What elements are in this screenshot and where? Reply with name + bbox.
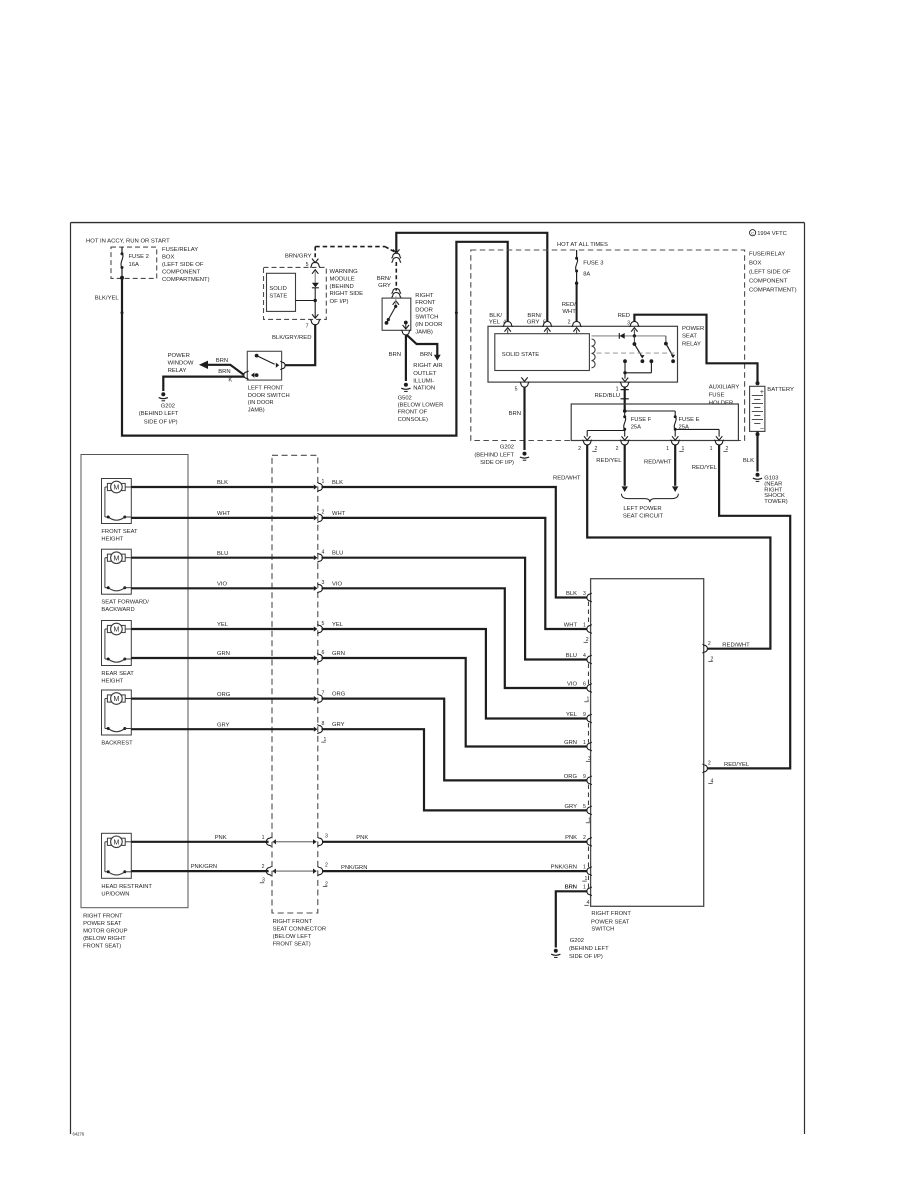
svg-text:2: 2 (583, 835, 586, 841)
svg-text:BATTERY: BATTERY (767, 387, 794, 393)
svg-text:1: 1 (322, 479, 325, 485)
motor M5 head restraint up/down (101, 833, 152, 897)
svg-text:M: M (113, 555, 119, 562)
svg-text:AUXILIARY: AUXILIARY (709, 385, 740, 391)
svg-text:BRN: BRN (218, 369, 230, 375)
svg-text:FUSE 3: FUSE 3 (583, 260, 603, 266)
svg-text:MODULE: MODULE (330, 276, 355, 282)
svg-text:G502: G502 (398, 395, 412, 401)
svg-text:(BEHIND: (BEHIND (330, 284, 354, 290)
diode D1 inside warning module (312, 272, 319, 301)
svg-text:3: 3 (325, 833, 328, 839)
svg-text:(LEFT SIDE OF: (LEFT SIDE OF (162, 262, 204, 268)
svg-text:WHT: WHT (562, 309, 576, 315)
svg-text:−: − (760, 425, 764, 432)
svg-text:(IN DOOR: (IN DOOR (415, 322, 442, 328)
svg-text:(BELOW RIGHT: (BELOW RIGHT (83, 936, 126, 942)
svg-text:COMPARTMENT): COMPARTMENT) (749, 288, 797, 294)
seat connector pin 6 (GRN) (314, 650, 325, 663)
right front power seat switch outline (591, 579, 704, 907)
svg-text:BOX: BOX (749, 261, 762, 267)
svg-text:M: M (113, 696, 119, 703)
svg-text:UP/DOWN: UP/DOWN (101, 891, 129, 897)
wire BLK seat connector to seat switch pin 3 (322, 480, 588, 598)
wire GRY seat connector to seat switch pin 5 (322, 722, 588, 810)
label RIGHT FRONT POWER SEAT SWITCH (591, 911, 631, 933)
svg-text:DOOR SWITCH: DOOR SWITCH (248, 393, 290, 399)
relay coil L1 (592, 339, 596, 368)
label WARNING MODULE (BEHIND RIGHT SIDE OF I/P) (330, 269, 364, 305)
seat switch pin 3 (BLK) (566, 591, 592, 602)
copyright note 1994 VFTC (750, 230, 787, 238)
wire RED/WHT from aux fuse to seat switch pin 2 upper (553, 445, 770, 649)
right front seat connector dashed outline (272, 455, 318, 913)
svg-text:16A: 16A (129, 262, 139, 268)
svg-text:RIGHT FRONT: RIGHT FRONT (591, 911, 631, 917)
svg-text:RED/YEL: RED/YEL (692, 465, 718, 471)
svg-text:HEAD RESTRAINT: HEAD RESTRAINT (101, 884, 152, 890)
svg-text:YEL: YEL (332, 622, 344, 628)
motor M4 backrest (101, 690, 133, 747)
svg-text:TOWER): TOWER) (764, 499, 787, 505)
label POWER WINDOW RELAY (168, 353, 194, 374)
svg-text:SEAT: SEAT (682, 334, 697, 340)
seat switch pin 6 (VIO) (567, 681, 592, 692)
wire BRN from right front door switch to ground G502 (389, 335, 406, 381)
svg-text:BLK: BLK (332, 480, 343, 486)
seat connector pin 5 (YEL) (314, 621, 325, 634)
svg-text:GRN: GRN (332, 651, 345, 657)
svg-text:ORG: ORG (217, 692, 231, 698)
seat connector pin 4 (BLU) (314, 550, 325, 563)
seat switch pin 4 (BLU) (566, 653, 592, 664)
svg-text:JAMB): JAMB) (415, 329, 433, 335)
svg-text:6: 6 (583, 681, 586, 687)
svg-text:RIGHT SIDE: RIGHT SIDE (330, 291, 364, 297)
relay contact node at pin 3 (633, 334, 636, 343)
svg-text:NATION: NATION (413, 386, 435, 392)
fuse F3 (FUSE 3 8A) (575, 250, 604, 285)
wire BRN from relay pin 5 to ground G202 (509, 387, 525, 451)
svg-text:POWER SEAT: POWER SEAT (83, 921, 122, 927)
svg-text:BLK: BLK (217, 480, 228, 486)
seat switch pin 1 (BRN) (565, 885, 592, 896)
label RIGHT FRONT SEAT CONNECTOR (BELOW LEFT FRONT SEAT) (273, 919, 326, 948)
svg-text:WARNING: WARNING (330, 269, 359, 275)
svg-text:SWITCH: SWITCH (591, 927, 614, 933)
svg-text:M: M (113, 485, 119, 492)
svg-text:2: 2 (708, 641, 711, 647)
svg-text:RED/WHT: RED/WHT (553, 475, 581, 481)
svg-text:BLK/: BLK/ (489, 313, 502, 319)
seat connector right pin 3 (PNK) (313, 833, 328, 846)
svg-text:8A: 8A (583, 271, 590, 277)
svg-text:1: 1 (666, 446, 669, 452)
svg-text:FUSE/RELAY: FUSE/RELAY (749, 252, 785, 258)
svg-text:WHT: WHT (564, 622, 578, 628)
svg-text:(BEHIND LEFT: (BEHIND LEFT (474, 452, 514, 458)
svg-text:PNK: PNK (356, 835, 368, 841)
svg-text:BLK: BLK (566, 591, 577, 597)
label RED 3 (618, 313, 631, 326)
svg-text:BRN/: BRN/ (377, 276, 391, 282)
svg-text:LEFT FRONT: LEFT FRONT (248, 385, 284, 391)
label RIGHT AIR OUTLET ILLUMI-NATION (413, 363, 442, 391)
aux fuse holder internal bus wires (584, 429, 722, 440)
svg-text:5: 5 (515, 386, 518, 392)
wire BRN from door switch pin K to ground G202 (163, 369, 244, 391)
wire BLK motor group to seat connector pin 1 (131, 480, 313, 487)
ground G202 (BEHIND LEFT SIDE OF I/P) bottom (551, 938, 609, 960)
seat switch pin 1 (PNK/GRN) (551, 865, 592, 876)
svg-text:BRN/GRY: BRN/GRY (285, 253, 312, 259)
svg-text:RIGHT: RIGHT (415, 293, 434, 299)
wire ORG motor group to seat connector pin 7 (131, 692, 313, 699)
label FUSE/RELAY BOX (LEFT SIDE OF COMPONENT COMPARTMENT) (162, 247, 210, 283)
seat switch right pin 2 (RED/WHT) (703, 641, 751, 662)
svg-text:FUSE: FUSE (709, 393, 725, 399)
label BRN/GRY 6 (527, 313, 546, 326)
label POWER SEAT RELAY (682, 326, 704, 348)
svg-text:7: 7 (306, 323, 309, 329)
svg-text:RED/YEL: RED/YEL (596, 458, 622, 464)
svg-text:4: 4 (322, 550, 325, 556)
warning module pin 7 connector (306, 301, 320, 330)
svg-text:BRN: BRN (389, 352, 401, 358)
svg-text:M: M (113, 627, 119, 634)
svg-text:FUSE 2: FUSE 2 (129, 254, 149, 260)
svg-text:PNK: PNK (215, 835, 227, 841)
svg-text:RELAY: RELAY (682, 342, 701, 348)
label HOT IN ACCY, RUN OR START (86, 238, 170, 244)
svg-text:JAMB): JAMB) (248, 407, 265, 413)
node battery positive junction (756, 381, 760, 385)
fuse FE (FUSE E 25A) (674, 415, 700, 430)
svg-text:HEIGHT: HEIGHT (101, 537, 123, 543)
svg-text:WINDOW: WINDOW (168, 361, 194, 367)
label pin 2 (568, 320, 571, 326)
motor M2 seat forward/backward (101, 549, 149, 613)
seat connector pin 1 (BLK) (314, 479, 325, 492)
relay switch contact SW-B (664, 336, 675, 363)
svg-text:RIGHT FRONT: RIGHT FRONT (83, 914, 123, 920)
seat connector left pin 2 (PNK/GRN) (262, 864, 276, 876)
label pin K (228, 377, 232, 383)
border frame (71, 223, 805, 1137)
seat switch pin 1 (WHT) (564, 622, 592, 633)
wire WHT motor group to seat connector pin 2 (131, 511, 313, 518)
svg-text:RED/WHT: RED/WHT (644, 459, 672, 465)
svg-text:1: 1 (710, 446, 713, 452)
svg-text:POWER: POWER (682, 326, 704, 332)
label FUSE/RELAY BOX (LEFT SIDE OF COMPONENT COMPARTMENT) right (749, 252, 797, 294)
svg-text:RIGHT AIR: RIGHT AIR (413, 363, 442, 369)
svg-text:(BELOW LEFT: (BELOW LEFT (273, 934, 312, 940)
wire BRN/GRY to power seat relay pin 6 (396, 233, 547, 322)
svg-text:YEL: YEL (489, 320, 501, 326)
svg-text:SIDE OF I/P): SIDE OF I/P) (569, 954, 603, 960)
auxiliary fuse holder outline (571, 404, 738, 441)
seat connector pin 3 (VIO) (314, 580, 325, 593)
diode D2 inside relay (619, 333, 624, 339)
ground G103 (NEAR RIGHT SHOCK TOWER) (753, 473, 788, 505)
svg-text:BLU: BLU (566, 653, 577, 659)
svg-text:RED/: RED/ (562, 302, 576, 308)
right front power seat motor group outline (81, 455, 188, 908)
svg-text:POWER: POWER (168, 353, 190, 359)
wire BRN/GRY dashed down to right front door switch (395, 262, 397, 291)
relay pin 4 connector (503, 322, 513, 334)
svg-text:BRN: BRN (420, 352, 432, 358)
svg-text:GRY: GRY (378, 283, 391, 289)
seat switch connector shell ids (582, 637, 591, 906)
svg-text:YEL: YEL (217, 622, 229, 628)
svg-text:1: 1 (583, 622, 586, 628)
wire BRN to power window relay (199, 358, 244, 374)
svg-text:FUSE F: FUSE F (631, 417, 652, 423)
label LEFT FRONT DOOR SWITCH (IN DOOR JAMB) (248, 385, 290, 413)
svg-text:LEFT POWER: LEFT POWER (623, 506, 661, 512)
svg-text:OF I/P): OF I/P) (330, 299, 349, 305)
seat connector pin 2 (WHT) (314, 510, 325, 523)
svg-text:SIDE OF I/P): SIDE OF I/P) (144, 419, 178, 425)
svg-text:FRONT SEAT): FRONT SEAT) (83, 944, 121, 950)
wire RED/WHT from fuse 3 to relay pin 2 (562, 283, 577, 321)
svg-text:BLU: BLU (332, 551, 343, 557)
label HOT AT ALL TIMES (557, 242, 608, 248)
wire WHT seat connector to seat switch pin 1 (322, 511, 588, 629)
svg-text:FRONT: FRONT (415, 300, 436, 306)
svg-text:SIDE OF I/P): SIDE OF I/P) (480, 460, 514, 466)
svg-text:ORG: ORG (564, 774, 578, 780)
svg-text:RED/BLU: RED/BLU (594, 393, 620, 399)
wire BRN to right air outlet illumination (407, 335, 441, 360)
svg-text:3: 3 (583, 591, 586, 597)
node RED/BLU junction (623, 409, 675, 417)
wire YEL motor group to seat connector pin 5 (131, 622, 313, 629)
seat connector shell id 1 (321, 737, 326, 743)
warning module pin 5 connector (306, 259, 320, 274)
seat connector pin 8 (GRY) (314, 721, 325, 734)
seat switch pin 9 (ORG) (564, 774, 592, 785)
svg-text:4: 4 (503, 320, 506, 326)
svg-text:BRN: BRN (216, 358, 228, 364)
label RIGHT FRONT POWER SEAT MOTOR GROUP (BELOW RIGHT FRONT SEAT) (83, 914, 127, 950)
power seat relay K1 outline (488, 326, 678, 382)
svg-text:ORG: ORG (332, 692, 346, 698)
svg-text:3: 3 (322, 580, 325, 586)
in-line connector on BRN/GRY wire (392, 249, 401, 262)
wire BLK from battery to ground G103 (743, 431, 758, 471)
svg-text:2: 2 (322, 510, 325, 516)
wire VIO motor group to seat connector pin 3 (131, 582, 313, 589)
svg-text:1: 1 (583, 740, 586, 746)
svg-text:RELAY: RELAY (168, 368, 187, 374)
svg-text:SEAT FORWARD/: SEAT FORWARD/ (101, 600, 149, 606)
svg-text:BLK/YEL: BLK/YEL (95, 296, 120, 302)
svg-text:PNK/GRN: PNK/GRN (191, 864, 217, 870)
brace for left power seat circuit (622, 494, 679, 502)
seat connector left pin 1 (PNK) (262, 835, 276, 847)
aux fuse holder bottom connectors (578, 440, 728, 452)
svg-text:BRN: BRN (509, 411, 521, 417)
wire PNK seat connector to seat switch (322, 841, 588, 843)
motor M1 front seat height (101, 479, 138, 543)
svg-text:9: 9 (583, 774, 586, 780)
svg-text:1: 1 (616, 386, 619, 392)
label LEFT POWER SEAT CIRCUIT (623, 506, 664, 519)
svg-text:BRN: BRN (565, 885, 577, 891)
ground G202 (BEHIND LEFT SIDE OF I/P) center (474, 445, 529, 466)
svg-text:WHT: WHT (217, 511, 231, 517)
svg-text:RED/YEL: RED/YEL (724, 762, 750, 768)
seat connector bridge wire PNK (272, 841, 316, 843)
svg-text:1: 1 (583, 865, 586, 871)
svg-text:RED/WHT: RED/WHT (722, 642, 750, 648)
wire BLU seat connector to seat switch pin 4 (322, 551, 588, 660)
svg-text:FUSE/RELAY: FUSE/RELAY (162, 247, 198, 253)
svg-text:VIO: VIO (217, 582, 227, 588)
seat connector pin 7 (ORG) (314, 690, 325, 703)
svg-text:YEL: YEL (566, 712, 578, 718)
svg-text:K: K (228, 377, 232, 383)
svg-text:FRONT SEAT: FRONT SEAT (101, 529, 138, 535)
svg-text:GRY: GRY (217, 722, 230, 728)
svg-text:VIO: VIO (567, 681, 577, 687)
svg-text:SWITCH: SWITCH (415, 315, 438, 321)
svg-text:25A: 25A (631, 425, 641, 431)
relay pin 2 connector (572, 322, 582, 334)
seat switch connector group dashes (587, 602, 589, 888)
seat switch pin 1 (GRN) (564, 740, 592, 751)
svg-text:5: 5 (583, 804, 586, 810)
label BRN/GRY at right front door switch (377, 276, 391, 289)
seat connector shell ids (260, 878, 328, 888)
svg-text:2: 2 (616, 446, 619, 452)
wire GRN motor group to seat connector pin 6 (131, 651, 313, 658)
wire RED/WHT to left power seat circuit B (644, 445, 678, 492)
svg-text:SEAT CONNECTOR: SEAT CONNECTOR (273, 926, 326, 932)
seat switch pin 5 (GRY) (565, 804, 592, 815)
svg-text:2: 2 (262, 864, 265, 870)
wire GRY motor group to seat connector pin 8 (131, 722, 313, 729)
svg-text:RED: RED (618, 313, 630, 319)
seat switch pin 9 (YEL) (566, 712, 592, 723)
svg-text:BACKWARD: BACKWARD (101, 607, 134, 613)
svg-text:1994 VFTC: 1994 VFTC (757, 231, 787, 237)
label AUXILIARY FUSE HOLDER (709, 385, 740, 407)
in-line connector above right front door switch (392, 288, 401, 297)
label RIGHT FRONT DOOR SWITCH (IN DOOR JAMB) (415, 293, 442, 336)
wire RED/YEL to left power seat circuit A (596, 445, 628, 492)
svg-text:2: 2 (568, 320, 571, 326)
svg-text:POWER SEAT: POWER SEAT (591, 920, 630, 926)
fuse F2 (FUSE 2 16A) (120, 247, 149, 280)
svg-text:GRY: GRY (565, 804, 578, 810)
seat switch pin 2 (PNK) (565, 835, 592, 846)
svg-text:PNK/GRN: PNK/GRN (551, 865, 577, 871)
relay pin 5 connector (515, 377, 530, 392)
relay internal feed line (592, 335, 666, 337)
svg-text:BLU: BLU (217, 551, 228, 557)
label BLK/YEL 4 (489, 313, 506, 326)
svg-text:+: + (760, 389, 764, 396)
fuse FF (FUSE F 25A) (623, 411, 652, 431)
wire BLK/GRY/RED from warning module pin 7 to left front door switch (272, 324, 315, 365)
svg-text:FRONT SEAT): FRONT SEAT) (273, 941, 311, 947)
relay armature link dashed (597, 352, 675, 354)
svg-text:HOLDER: HOLDER (709, 400, 734, 406)
wire BLK/YEL from fuse 2 to power seat relay pin 4 (95, 242, 508, 436)
svg-text:2: 2 (578, 446, 581, 452)
wire PNK motor group to seat connector (131, 835, 268, 842)
svg-text:BRN/: BRN/ (527, 313, 541, 319)
svg-text:GRN: GRN (217, 651, 230, 657)
wire PNK/GRN seat connector to seat switch (322, 870, 588, 872)
svg-text:MOTOR GROUP: MOTOR GROUP (83, 929, 127, 935)
svg-text:SOLID: SOLID (269, 286, 286, 292)
svg-text:PNK: PNK (565, 835, 577, 841)
svg-text:5: 5 (322, 621, 325, 627)
svg-text:(BELOW LOWER: (BELOW LOWER (398, 403, 444, 409)
wire YEL seat connector to seat switch pin 9 (322, 622, 588, 719)
svg-text:M: M (113, 839, 119, 846)
svg-text:HEIGHT: HEIGHT (101, 679, 123, 685)
svg-text:COMPONENT: COMPONENT (749, 279, 788, 285)
right front door switch S2 (382, 296, 411, 335)
svg-text:COMPARTMENT): COMPARTMENT) (162, 277, 210, 283)
svg-text:STATE: STATE (269, 294, 287, 300)
svg-text:FRONT OF: FRONT OF (398, 410, 428, 416)
svg-text:DOOR: DOOR (415, 307, 433, 313)
svg-text:3: 3 (627, 320, 630, 326)
svg-text:HOT AT ALL TIMES: HOT AT ALL TIMES (557, 242, 608, 248)
splice ticks on BLK/YEL wire (121, 311, 458, 314)
svg-text:9: 9 (583, 712, 586, 718)
svg-text:WHT: WHT (332, 511, 346, 517)
svg-text:OUTLET: OUTLET (413, 371, 437, 377)
svg-text:8: 8 (322, 721, 325, 727)
svg-text:C: C (751, 231, 754, 236)
wire RED/YEL from aux fuse to seat switch pin 2 lower (692, 445, 790, 769)
svg-text:GRY: GRY (332, 722, 345, 728)
wire BRN/GRY dashed from warning module pin 5 to splice (315, 247, 394, 260)
warning module dashed outline (264, 267, 327, 319)
svg-text:SEAT CIRCUIT: SEAT CIRCUIT (623, 513, 664, 519)
svg-text:BACKREST: BACKREST (101, 741, 133, 747)
svg-text:RIGHT FRONT: RIGHT FRONT (273, 919, 313, 925)
svg-text:5: 5 (306, 262, 309, 268)
svg-text:(BEHIND LEFT: (BEHIND LEFT (569, 946, 609, 952)
svg-text:(LEFT SIDE OF: (LEFT SIDE OF (749, 270, 791, 276)
wire VIO seat connector to seat switch pin 6 (322, 581, 588, 688)
wire GRN seat connector to seat switch pin 1 (322, 651, 588, 747)
svg-text:1: 1 (583, 885, 586, 891)
label BRN/GRY at warning module pin 5 (285, 253, 312, 259)
svg-text:(BEHIND LEFT: (BEHIND LEFT (139, 411, 179, 417)
svg-text:PNK/GRN: PNK/GRN (341, 865, 367, 871)
svg-text:6: 6 (322, 650, 325, 656)
relay output nodes and wire to pin 1 (622, 359, 654, 381)
battery BT1 (750, 386, 794, 432)
svg-text:VIO: VIO (332, 581, 342, 587)
node battery negative junction (756, 432, 760, 436)
warning module solid state block U1 (267, 273, 296, 311)
svg-text:6: 6 (543, 320, 546, 326)
svg-text:4: 4 (583, 653, 586, 659)
wire ORG seat connector to seat switch pin 9 (322, 692, 588, 781)
wire BRN from seat switch to ground G202 (556, 885, 588, 948)
